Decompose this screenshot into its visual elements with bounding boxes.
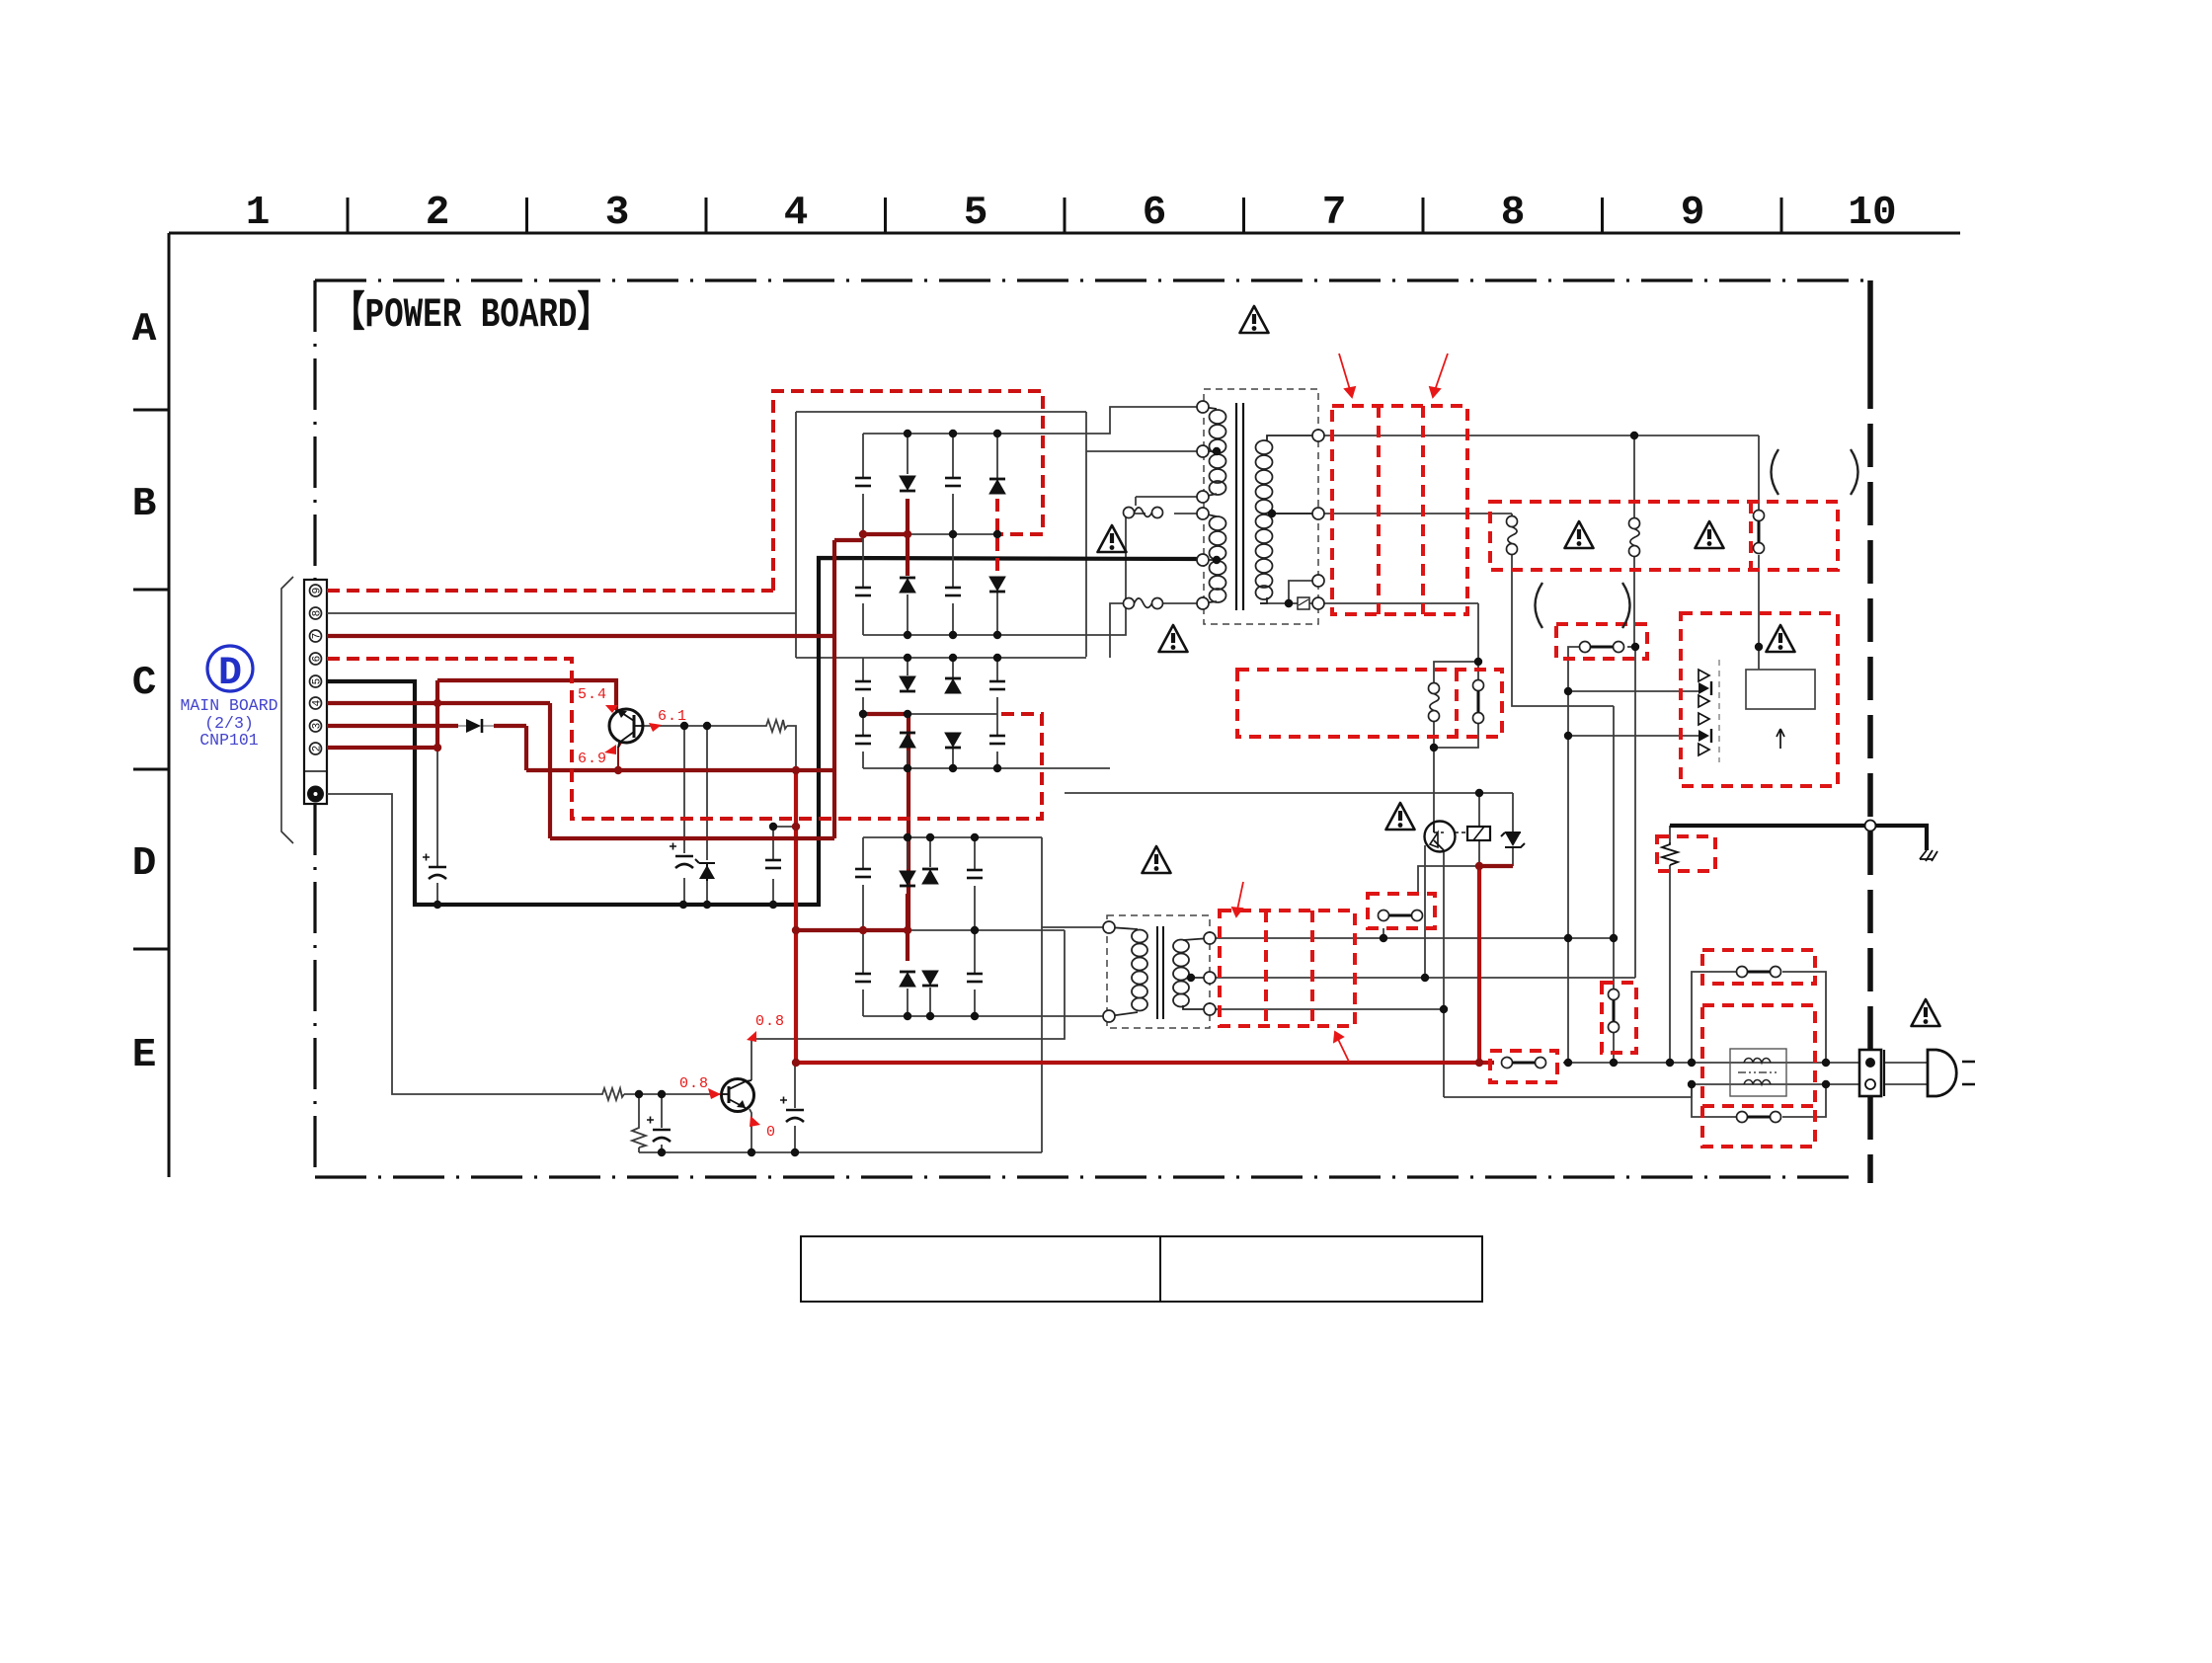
wire red loop lower run	[550, 836, 834, 840]
wire standby secondary top	[1210, 937, 1614, 939]
resistor R2 (horizontal)	[600, 1088, 624, 1100]
T2 core	[1157, 926, 1163, 1019]
opto internal dashed divider	[1718, 660, 1720, 762]
svg-text:8: 8	[1501, 191, 1526, 236]
column numbers	[246, 191, 1897, 236]
wire plug prongs	[1962, 1062, 1975, 1084]
diode D11	[900, 476, 915, 491]
wire pin4 feed	[327, 701, 550, 705]
relay RY coil	[1455, 827, 1490, 840]
connector pins 9..2	[310, 585, 322, 754]
svg-text:6: 6	[312, 656, 324, 663]
wire link JW5 drop	[1424, 845, 1426, 978]
connector bracket	[281, 577, 293, 843]
wire Q2 emitter	[750, 1109, 751, 1152]
capacitor C1 (electrolytic, left)	[423, 854, 446, 880]
box: fuse row top right	[1490, 502, 1838, 570]
red pointer arrows to boxes	[1232, 354, 1448, 1062]
diode D21	[900, 676, 915, 691]
diode D31	[900, 871, 915, 886]
T2 primary winding	[1109, 927, 1147, 1016]
capacitor C34	[967, 974, 983, 982]
zener diode ZD1	[695, 859, 715, 881]
node dots bridge2	[904, 654, 911, 662]
wire bridge2 minus rail extension	[997, 767, 1110, 769]
board outline top edge	[315, 278, 1870, 281]
board outline left edge	[313, 280, 316, 1177]
fuse F3 in box	[1507, 516, 1518, 555]
wire opto input lower	[1568, 735, 1700, 737]
wire bridge2 mid riser	[907, 714, 910, 930]
wire bridge1 col4 dashed tap	[995, 499, 999, 577]
box: link JW6 on live bus	[1490, 1051, 1557, 1082]
wire pin2 feed	[327, 746, 437, 750]
wire fuse F1 to transformer P2 top	[1174, 513, 1203, 515]
wire pin4/pin2 tie	[435, 680, 439, 748]
link JW8 AC bottom jumper	[1737, 1112, 1781, 1123]
wire bridge2 mid rail red	[863, 712, 908, 716]
wire T1 secondary aux terminal	[1289, 581, 1318, 603]
link JW4 horizontal	[1379, 911, 1423, 921]
board outline bottom edge	[315, 1175, 1857, 1178]
svg-text:MAIN BOARD: MAIN BOARD	[180, 696, 277, 715]
T1 terminals	[1197, 401, 1209, 413]
diode D12	[900, 578, 915, 593]
wire zener ZD1 column	[706, 726, 708, 905]
wire live bypass loop	[1692, 972, 1826, 1063]
box: photo-coupler / IC area	[1681, 613, 1838, 786]
node: border crossing circle on ground bus	[1865, 821, 1876, 831]
wire AC live rail	[1563, 1062, 1859, 1064]
fuse F2 (primary bottom)	[1124, 598, 1163, 609]
wire x1634 drop	[1613, 706, 1615, 1063]
svg-text:3: 3	[312, 723, 324, 730]
wire y520 drop through fuse F3	[1512, 514, 1614, 706]
wire bridge1 diode tap red	[906, 499, 909, 576]
svg-text:2: 2	[426, 191, 450, 236]
svg-text:9: 9	[312, 588, 324, 594]
opto/IC block contents	[1698, 660, 1815, 762]
wire pin8 to primary nest	[327, 612, 796, 614]
wire 6.9 bus	[526, 768, 834, 772]
wire capacitor C2 column	[683, 726, 685, 905]
wire bridge3 col1	[862, 837, 864, 1016]
T2 secondary winding	[1173, 938, 1210, 1009]
resistor R3 (vertical zigzag)	[632, 1126, 646, 1148]
wire pin9 dashed	[327, 589, 773, 593]
parentheses marks	[1536, 449, 1858, 628]
transistor Q1	[609, 709, 643, 748]
wire x1781 column	[1758, 436, 1760, 670]
wire relay to zener tie	[1479, 864, 1513, 868]
opto emitter triangles group1	[1698, 670, 1709, 681]
warning triangle marks	[1240, 306, 1269, 333]
wire JW3 right stub	[1627, 646, 1635, 648]
wire standby secondary mid	[1210, 977, 1635, 979]
opto up arrow	[1777, 729, 1784, 749]
wire Q1 collector feed	[437, 680, 616, 710]
box: AC line filter	[1702, 1005, 1815, 1147]
diode D24	[945, 733, 961, 748]
bridge3 capacitors/diodes	[855, 833, 983, 1020]
link JW3 horizontal	[1580, 642, 1624, 653]
connector ground pin	[307, 786, 324, 803]
wire nest top to transformer tap	[796, 412, 1203, 657]
svg-text:CNP101: CNP101	[199, 731, 259, 750]
circled D destination mark	[207, 646, 253, 691]
wire link JW4 upper to relay net	[1418, 866, 1479, 894]
svg-text:2: 2	[312, 746, 324, 752]
wire capacitor C5 column	[661, 1094, 663, 1152]
capacitor C13	[945, 478, 961, 486]
wire capacitor C4 column	[772, 827, 774, 905]
svg-text:A: A	[132, 307, 157, 353]
wire Q2 collector feed	[751, 930, 1065, 1039]
wire zener ZD2 column	[1512, 793, 1514, 866]
T2 terminals	[1103, 921, 1115, 933]
transformer T2 (standby)	[1103, 915, 1216, 1028]
connector body	[304, 580, 327, 804]
junction dots (general)	[434, 432, 1830, 1156]
photo-coupler Q3	[1425, 822, 1456, 852]
svg-text:7: 7	[312, 633, 324, 640]
top ruler ticks	[348, 198, 1781, 233]
wire bridge3 col2	[907, 837, 908, 1016]
wire bridge1 top rail	[863, 433, 997, 435]
left scale line	[168, 233, 171, 1177]
wire bridge1 mid rail red	[863, 532, 908, 536]
wire bridge1 col3	[952, 434, 954, 635]
capacitor C31	[855, 869, 871, 877]
transformer T1 outline	[1204, 389, 1318, 624]
svg-text:3: 3	[605, 191, 630, 236]
wire bridge3 mid feed	[796, 928, 908, 932]
top ruler line	[169, 232, 1960, 235]
arrow to standby box bottom	[1335, 1033, 1349, 1062]
wire standby red bus	[796, 1061, 1494, 1065]
wire photo-coupler Q3 emitter drop	[1443, 850, 1445, 1097]
svg-text:9: 9	[1681, 191, 1705, 236]
wire Q2 bottom rail	[639, 1151, 1042, 1153]
wire transformer T1 secondary bottom	[1260, 602, 1478, 604]
wire transformer P1 bottom stub	[1136, 497, 1203, 506]
svg-text:E: E	[132, 1033, 157, 1078]
wire pair to photo-coupler Q3	[1433, 748, 1435, 823]
svg-text:0.8: 0.8	[755, 1013, 785, 1030]
wire neutral bypass loop	[1692, 1084, 1826, 1117]
wire bridge2 mid rail gray part	[908, 713, 997, 715]
wire pin3 drop to 6.9 bus	[524, 726, 528, 770]
box: link JW5 vertical	[1602, 983, 1636, 1053]
svg-text:6.1: 6.1	[658, 708, 687, 725]
bridge1 capacitors/diodes	[855, 430, 1005, 639]
capacitor C11	[855, 478, 871, 486]
transformer T1 (main)	[1197, 389, 1324, 624]
box: wide thermistor box center	[1237, 670, 1502, 737]
wire bridge1 col2	[907, 434, 908, 635]
wire Q1 base network	[643, 725, 764, 727]
svg-text:C: C	[132, 661, 157, 706]
svg-text:8: 8	[312, 610, 324, 617]
zener diode ZD2	[1501, 832, 1525, 847]
wire bridge3 top rail	[863, 836, 1042, 838]
wire R2 to Q2 base	[624, 1093, 722, 1095]
capacitor C5 (electrolytic)	[647, 1117, 671, 1143]
diode D23	[945, 678, 961, 693]
wire transformer T1 secondary mid tap	[1273, 513, 1512, 515]
diode D13	[989, 479, 1005, 494]
T1 primary winding 1	[1203, 407, 1226, 497]
wire link JW4 to y950	[1382, 928, 1384, 938]
wire bridge1 plus rail to transformer P1 top	[997, 407, 1203, 434]
wire pin3 feed	[327, 724, 526, 728]
wire bridge2 top rail	[863, 657, 997, 659]
link JW5 vertical	[1609, 990, 1619, 1033]
wire pin9 dashed riser and bridge1 enclosure	[773, 391, 1043, 591]
wire bridge2 col3	[952, 658, 954, 768]
wire bridge2 col1	[862, 658, 864, 768]
svg-text:D: D	[132, 841, 157, 887]
board outline right edge (heavy dashed)	[1867, 280, 1873, 367]
capacitor C22	[855, 736, 871, 744]
svg-text:6.9: 6.9	[578, 751, 607, 767]
wire bridge2 col2	[907, 658, 908, 768]
capacitor C14	[945, 588, 961, 595]
wire capacitor C1 column	[436, 748, 438, 905]
wire opto input upper	[1568, 690, 1700, 692]
diode D33	[922, 869, 938, 884]
svg-text:D: D	[218, 652, 242, 696]
svg-text:0.8: 0.8	[679, 1075, 709, 1092]
thermal fuse TF vertical	[1429, 683, 1440, 722]
wire resistor R3 column	[638, 1094, 640, 1152]
opto emitter triangles group2	[1698, 713, 1709, 725]
title block table	[801, 1236, 1482, 1302]
wire bridge1 col1	[862, 434, 864, 635]
wire red drop x806	[794, 770, 798, 1063]
ground symbol	[1920, 850, 1937, 861]
wire connector to plug neutral	[1885, 1083, 1928, 1085]
link JW2 vertical in fuse box	[1754, 511, 1765, 554]
svg-text:B: B	[132, 482, 157, 527]
wire bridge1 col4	[996, 434, 998, 635]
wire connector to plug live	[1885, 1062, 1928, 1064]
wire bridge3 bottom rail	[863, 1015, 1109, 1017]
wire bridge3 col3	[929, 837, 931, 1016]
capacitor C6 (electrolytic)	[780, 1097, 804, 1123]
wire bridge2 plus rail	[796, 657, 863, 659]
left scale ticks	[133, 410, 169, 949]
T1 winding sense dots	[1213, 447, 1221, 455]
wire standby secondary bottom	[1210, 1008, 1444, 1010]
fuse F4 in box	[1629, 518, 1640, 557]
diode D34	[922, 971, 938, 986]
transformer T2 outline	[1107, 915, 1210, 1028]
wire pin7 red bus	[327, 540, 863, 838]
svg-text:5: 5	[312, 678, 324, 685]
wire Q2 collector	[750, 1039, 752, 1080]
line filter inner box	[1730, 1049, 1786, 1096]
svg-text:4: 4	[312, 699, 324, 706]
transistor Q2	[722, 1079, 754, 1112]
wire bridge3 mid rail gray part	[908, 929, 1065, 931]
wire N return line	[1444, 1084, 1692, 1097]
capacitor C33	[967, 870, 983, 878]
wire nest vertical x806	[795, 412, 797, 658]
svg-text:7: 7	[1322, 191, 1347, 236]
IC501 rectangle	[1746, 670, 1815, 709]
fuse F1 (primary top)	[1124, 508, 1163, 518]
resistor R1 (horizontal)	[764, 720, 787, 732]
wire fuse drop x1655	[1633, 436, 1635, 647]
wire bridge1 mid rail gray part	[908, 533, 997, 535]
svg-text:6: 6	[1143, 191, 1167, 236]
diode D22	[900, 733, 915, 748]
svg-text:10: 10	[1848, 191, 1896, 236]
row letters	[132, 307, 157, 1078]
capacitor C23	[989, 681, 1005, 689]
svg-text:1: 1	[246, 191, 271, 236]
wire bridge3 plus to standby primary top	[1042, 837, 1109, 1152]
diode D14	[989, 577, 1005, 592]
wire bridge3 diode tap red	[906, 894, 909, 961]
box: resistor R4	[1657, 836, 1715, 871]
wire pin5 black bus	[327, 558, 1203, 905]
capacitor C24	[989, 736, 1005, 744]
T1 primary winding 2	[1203, 514, 1226, 603]
resistor R4 (vertical zigzag)	[1662, 842, 1678, 865]
wire pin6 dashed	[327, 659, 1042, 819]
wire AC neutral rail	[1692, 1083, 1859, 1085]
wire resistor R4 column	[1669, 826, 1671, 1063]
box: IC pair right of transformer	[1332, 406, 1467, 614]
node dots bridge1	[904, 430, 911, 437]
wire chassis ground bus	[1670, 826, 1927, 850]
link JW1 vertical (pair)	[1473, 680, 1484, 724]
wire red loop riser left	[548, 703, 552, 838]
AC plug	[1928, 1050, 1956, 1096]
wire relay RY drive	[1478, 793, 1480, 866]
T1 secondary winding	[1256, 436, 1319, 603]
node dots bridge3	[904, 833, 911, 841]
svg-text:5: 5	[964, 191, 988, 236]
box: link JW4	[1368, 894, 1435, 928]
capacitor C4 (ceramic)	[765, 860, 781, 868]
wire ground pin to Q2 base	[327, 794, 600, 1094]
svg-text:【POWER BOARD】: 【POWER BOARD】	[333, 290, 609, 339]
arrow to IC box B	[1434, 354, 1448, 393]
box: standby secondary block	[1220, 911, 1355, 1026]
diode D32	[900, 972, 915, 987]
wire fuse F2 line to transformer P2 bottom	[1110, 603, 1203, 658]
wire bridge3 col4	[974, 837, 976, 1016]
wire link JW3 to x1582 drop	[1568, 647, 1582, 1063]
wire relay feed line y803	[1065, 792, 1513, 794]
wire cap C6 column on red bus drop	[794, 1063, 796, 1152]
svg-text:4: 4	[784, 191, 809, 236]
AC inlet connector block	[1859, 1050, 1884, 1096]
capacitor C2 (electrolytic)	[670, 843, 693, 869]
wire y611 drop to fuse/link pair	[1434, 603, 1478, 748]
wire bridge1 minus rail to fuse F1 line	[997, 514, 1145, 635]
svg-text:5.4: 5.4	[578, 686, 607, 703]
capacitor C32	[855, 974, 871, 982]
arrow to standby box top	[1236, 882, 1243, 914]
wire relay output drop	[1477, 866, 1481, 1063]
wire transformer T1 secondary top	[1318, 435, 1759, 436]
capacitor C21	[855, 681, 871, 689]
T1 core	[1236, 403, 1243, 610]
capacitor C12	[855, 588, 871, 595]
wire x1656 drop from link JW3	[1634, 647, 1636, 978]
wire bridge2 rail extension	[997, 657, 1086, 659]
wire Q1 emitter	[618, 743, 621, 770]
box: AC top jumper	[1702, 950, 1815, 984]
link JW7 AC top jumper	[1737, 967, 1781, 978]
wire bridge2 col4	[996, 658, 998, 768]
wire R1 to cap junction	[773, 726, 796, 827]
T2 winding sense dot	[1187, 974, 1195, 982]
diode D1 (series on pin3)	[458, 719, 494, 733]
arrow to IC box A	[1339, 354, 1351, 393]
wire bridge2 bottom rail	[863, 767, 997, 769]
bridge2 capacitors/diodes	[855, 654, 1005, 772]
wire bridge1 bottom rail	[863, 634, 997, 636]
red measurement labels	[578, 686, 785, 1141]
svg-text:0: 0	[766, 1124, 776, 1141]
T1 small component on secondary bottom	[1298, 597, 1309, 609]
link JW6 on live bus	[1502, 1058, 1546, 1069]
box: link JW3	[1556, 624, 1647, 659]
